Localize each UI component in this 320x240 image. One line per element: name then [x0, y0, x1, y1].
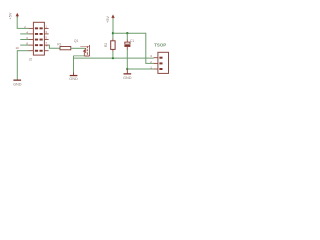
svg-text:GND: GND [13, 82, 22, 86]
wire pin6 stub [20, 39, 29, 41]
svg-text:1: 1 [45, 24, 47, 28]
wire jog pin to R1 [48, 45, 60, 48]
ic U1 TSOP receiver [154, 43, 168, 74]
wire pin10 to ground [17, 50, 29, 52]
wire out net horizontal [73, 57, 154, 59]
wire +5V rail [113, 32, 146, 34]
wire R1 to gate [71, 47, 86, 49]
wire pin8 stub [20, 44, 29, 46]
pin stub left row1 [29, 27, 34, 29]
pin stub tsop 1 [154, 68, 158, 70]
pin stub right row4 [44, 44, 48, 46]
node junction +5V rail [112, 32, 114, 34]
svg-text:GND: GND [69, 77, 78, 81]
wire pin2 to +5V [17, 27, 29, 29]
svg-text:J2: J2 [29, 57, 33, 61]
svg-text:5: 5 [45, 36, 47, 40]
pin stub left row4 [29, 44, 34, 46]
wire VS drop [146, 33, 154, 64]
svg-text:+5V: +5V [9, 12, 13, 19]
node junction R2 bottom [112, 57, 114, 59]
resistor R1 [57, 42, 71, 49]
wire +5V stem right [112, 19, 114, 34]
pin stub left row5 [29, 50, 34, 52]
wire source corner drop [73, 56, 75, 73]
wire pin4 stub [20, 33, 29, 35]
wire out pin1 [127, 68, 153, 70]
wire +5V stem left [16, 17, 18, 29]
svg-text:+5V: +5V [106, 16, 110, 23]
svg-text:GND: GND [123, 76, 132, 80]
pin stub left row3 [29, 39, 34, 41]
supply +5V P1 [9, 12, 19, 19]
wire R2 top [112, 33, 114, 39]
transistor Q1 n-mosfet [74, 39, 90, 56]
pin stub right row5 [44, 50, 48, 52]
pin stub right row3 [44, 39, 48, 41]
svg-text:TSOP: TSOP [154, 43, 166, 48]
wire R2 bottom [112, 49, 114, 51]
pin stub tsop 2 [154, 62, 158, 64]
node junction C1 top [126, 32, 128, 34]
supply +5V P2 [106, 14, 115, 23]
node junction C1 bottom [126, 68, 128, 70]
pin stub tsop 3 [154, 57, 158, 59]
wire ground drop left [16, 50, 18, 79]
wire C1 bottom [126, 47, 128, 50]
wire C1 top [126, 33, 128, 40]
ground GND2 [69, 73, 78, 81]
pin stub left row2 [29, 33, 34, 35]
svg-text:R2: R2 [104, 43, 108, 47]
svg-text:3: 3 [45, 30, 47, 34]
connector J2 pin header [33, 22, 44, 55]
ground GND3 [123, 69, 132, 80]
pin stub right row1 [44, 27, 48, 29]
resistor R2 [104, 41, 115, 50]
wire source to corner [74, 55, 85, 57]
pin stub right row2 [44, 33, 48, 35]
svg-text:C1: C1 [130, 39, 134, 43]
svg-text:Q1: Q1 [74, 39, 79, 43]
ground GND1 [13, 80, 22, 87]
svg-text:R1: R1 [57, 42, 61, 46]
capacitor C1 [124, 39, 134, 47]
svg-text:10: 10 [16, 46, 20, 50]
